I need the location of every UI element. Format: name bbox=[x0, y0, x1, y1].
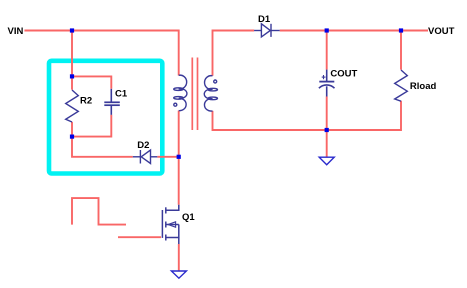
wire COUT top lead bbox=[326, 31, 328, 70]
wire R2 bottom lead bbox=[71, 122, 73, 137]
wire secondary top to D1 bbox=[213, 31, 255, 76]
svg-text:VOUT: VOUT bbox=[428, 26, 455, 37]
mosfet Q1 bbox=[162, 205, 178, 244]
wire C1 bottom lead bbox=[72, 115, 111, 137]
node Rload top junction bbox=[399, 28, 403, 32]
wire gate lead bbox=[118, 236, 161, 238]
svg-text:COUT: COUT bbox=[330, 69, 357, 80]
wire snubber tap bbox=[71, 31, 73, 77]
ground Q1 bbox=[171, 271, 186, 278]
capacitor COUT bbox=[319, 70, 335, 97]
resistor R2 bbox=[66, 90, 79, 122]
wire Q1 source lead bbox=[178, 244, 180, 271]
resistor Rload bbox=[395, 70, 408, 101]
wire COUT bottom lead bbox=[326, 97, 328, 131]
wire D2 to drain node bbox=[157, 156, 178, 158]
ground COUT bbox=[319, 157, 334, 165]
node RC bottom junction bbox=[70, 135, 74, 139]
diode D1 bbox=[254, 24, 280, 37]
wire VIN top rail bbox=[24, 31, 178, 76]
node COUT top junction bbox=[325, 28, 329, 32]
wire COUT ground lead bbox=[326, 130, 328, 157]
svg-text:C1: C1 bbox=[115, 89, 128, 100]
wire Rload top lead bbox=[400, 31, 402, 70]
svg-text:Rload: Rload bbox=[410, 81, 437, 92]
node RC top junction bbox=[70, 74, 74, 78]
wire bottom rail secondary bbox=[213, 101, 402, 130]
transformer primary winding bbox=[174, 75, 187, 111]
svg-text:R2: R2 bbox=[80, 96, 92, 107]
node drain junction bbox=[177, 155, 181, 159]
wire snubber to D2 bbox=[72, 137, 133, 157]
transformer core bbox=[191, 58, 193, 131]
transformer secondary winding bbox=[204, 76, 217, 111]
svg-text:D1: D1 bbox=[258, 14, 271, 25]
pulse waveform bbox=[72, 198, 126, 225]
wire R2 top lead bbox=[71, 76, 73, 89]
snubber highlight box bbox=[49, 61, 162, 174]
svg-text:Q1: Q1 bbox=[182, 212, 195, 223]
diode D2 bbox=[133, 150, 158, 164]
svg-text:D2: D2 bbox=[137, 140, 149, 151]
capacitor C1 bbox=[104, 89, 120, 115]
wire D1 to VOUT bbox=[280, 30, 428, 32]
node COUT bottom junction bbox=[325, 128, 329, 132]
node VIN junction bbox=[70, 28, 74, 32]
wire drain vertical bbox=[178, 111, 180, 205]
svg-text:VIN: VIN bbox=[8, 26, 24, 37]
wire RC top bbox=[72, 76, 111, 88]
